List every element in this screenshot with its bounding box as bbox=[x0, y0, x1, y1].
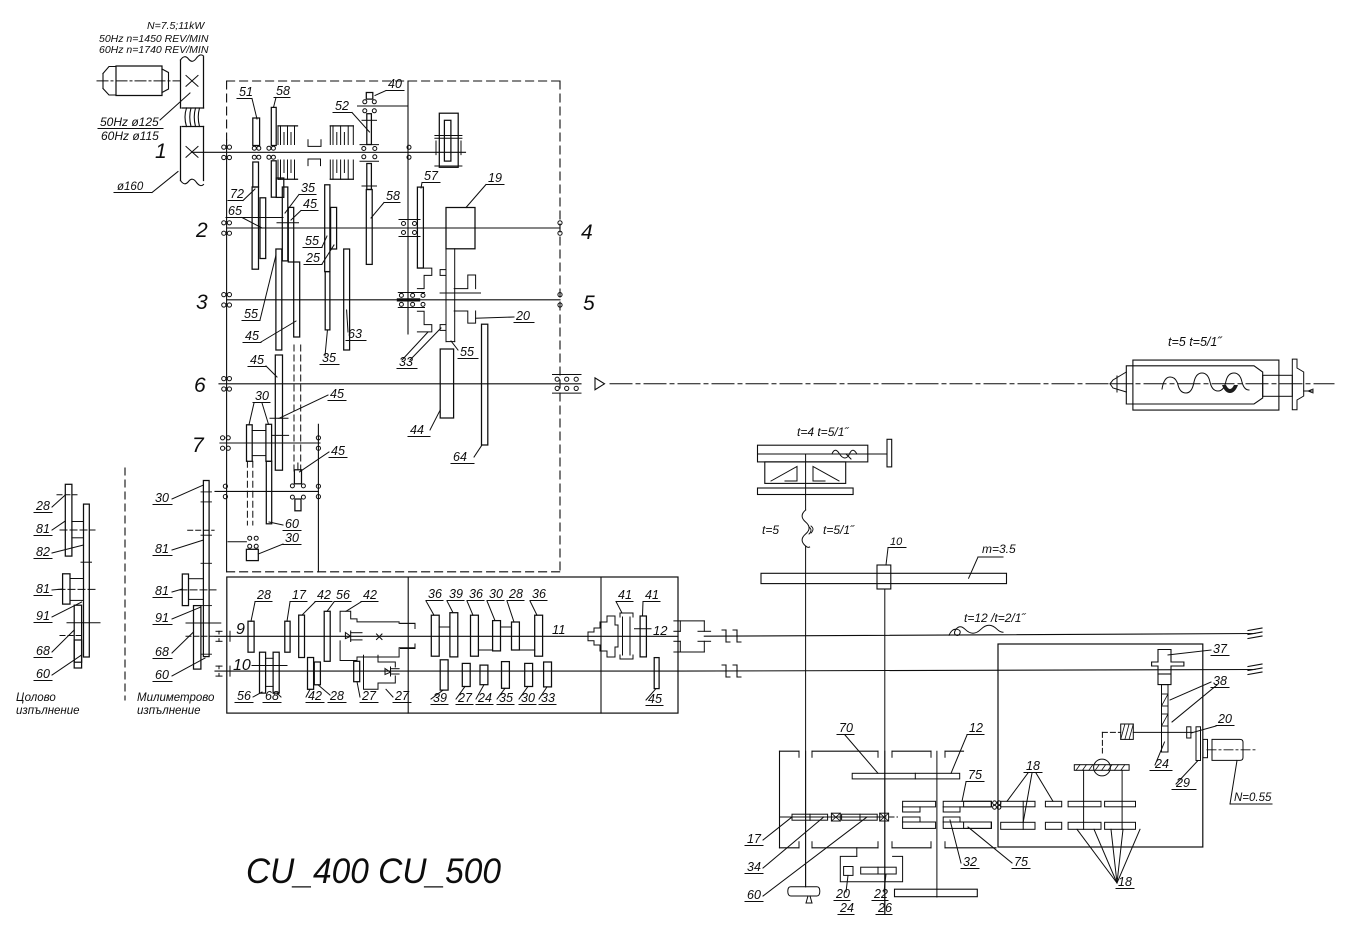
gear 30 cluster left bar bbox=[247, 425, 253, 462]
svg-text:75: 75 bbox=[968, 768, 982, 782]
rapid gear bars set1 bottom bbox=[1001, 822, 1035, 829]
svg-text:N=7.5;11kW: N=7.5;11kW bbox=[147, 20, 205, 32]
clutch jaw bottom bbox=[903, 817, 920, 822]
svg-text:12: 12 bbox=[653, 623, 668, 638]
pinion shaft line bbox=[884, 589, 886, 914]
svg-text:Милиметрово: Милиметрово bbox=[137, 692, 215, 704]
inch variant gear 68/60 bar bbox=[74, 640, 81, 668]
hub link 36-39 bbox=[439, 626, 450, 628]
worm shaft bar 38 bbox=[1162, 685, 1169, 752]
svg-text:4: 4 bbox=[581, 221, 593, 244]
vertical line cross-slide screw through apron bbox=[805, 751, 807, 887]
svg-text:5: 5 bbox=[583, 292, 595, 315]
belt pulley column (driver) bbox=[181, 55, 204, 61]
gear 57 dog clutch step lower bbox=[417, 311, 431, 332]
shaft X line bbox=[215, 670, 678, 672]
svg-text:41: 41 bbox=[645, 588, 659, 602]
worm hatched segment b bbox=[1162, 714, 1169, 726]
svg-text:1: 1 bbox=[155, 140, 167, 163]
gear 28 on shaft X bbox=[314, 662, 320, 685]
svg-text:91: 91 bbox=[155, 611, 169, 625]
svg-text:2: 2 bbox=[195, 219, 208, 242]
worm hatched bar bbox=[1074, 765, 1129, 771]
svg-text:20: 20 bbox=[515, 309, 530, 323]
gear 72 bbox=[252, 187, 258, 269]
ratchet symbol a bbox=[831, 813, 840, 821]
gear bar 17 bbox=[792, 814, 828, 820]
gear 44 hub bbox=[446, 341, 455, 343]
gearbox dashed housing bottom edge bbox=[227, 571, 560, 573]
shaft VI (spindle) line bbox=[219, 383, 581, 385]
detent arrow on shaft IX bbox=[345, 633, 350, 639]
cross mark on motor axis bbox=[186, 76, 198, 87]
gear 24 on shaft X middle bbox=[480, 665, 488, 685]
rapid motor flange bbox=[1196, 727, 1201, 761]
svg-text:33: 33 bbox=[399, 355, 413, 369]
vertical screw line lower bbox=[805, 546, 807, 887]
gear 45 on shaft III bbox=[294, 262, 300, 337]
metric variant gear 81 hub bbox=[182, 574, 188, 606]
sliding block 42 on shaft IX bbox=[340, 611, 415, 632]
bearing gear 52 on shaft I bbox=[360, 144, 379, 146]
svg-text:10: 10 bbox=[890, 536, 903, 548]
metric variant centerline bbox=[180, 589, 216, 591]
gear 39 on shaft X middle bbox=[440, 660, 448, 690]
svg-text:30: 30 bbox=[285, 531, 299, 545]
svg-text:t=4 t=5/1˝: t=4 t=5/1˝ bbox=[797, 425, 849, 439]
dashed alternate position rails of gear 45 bbox=[293, 345, 295, 472]
svg-text:27: 27 bbox=[457, 691, 473, 705]
svg-text:m=3.5: m=3.5 bbox=[982, 542, 1016, 556]
universal joints on feed rod bbox=[725, 665, 727, 677]
svg-text:60Hz n=1740 REV/MIN: 60Hz n=1740 REV/MIN bbox=[99, 44, 209, 56]
svg-text:60: 60 bbox=[285, 517, 299, 531]
svg-text:37: 37 bbox=[1213, 642, 1228, 656]
gear 57 on shaft II bbox=[417, 187, 423, 268]
svg-text:изпълнение: изпълнение bbox=[16, 705, 80, 717]
svg-text:Цолово: Цолово bbox=[16, 692, 56, 704]
svg-text:t=5/1˝: t=5/1˝ bbox=[823, 523, 855, 537]
apron box top edge bbox=[780, 750, 800, 752]
shaft VII line bbox=[220, 442, 320, 444]
rapid motor axis bbox=[1207, 749, 1256, 751]
hub link 28-36c bbox=[519, 649, 534, 651]
gear 51 bbox=[253, 118, 260, 146]
svg-text:42: 42 bbox=[308, 689, 322, 703]
rapid gear bars set3 bottom bbox=[1068, 822, 1101, 829]
bearing shaft VI left wall bbox=[222, 377, 226, 381]
gear 45 sliding on shaft VI bbox=[275, 355, 282, 470]
bearing small 45 bbox=[297, 463, 299, 470]
horizontal shaft to motor bbox=[1133, 731, 1192, 733]
cross mark on shaft I bbox=[186, 147, 198, 158]
svg-text:t=5: t=5 bbox=[762, 523, 779, 537]
tailstock quill bbox=[1126, 366, 1262, 404]
svg-text:20: 20 bbox=[835, 887, 850, 901]
svg-text:63: 63 bbox=[348, 327, 362, 341]
clutch hatched square 24 bbox=[1121, 724, 1134, 739]
gear 68 on shaft X bbox=[273, 652, 279, 693]
svg-text:10: 10 bbox=[233, 657, 251, 674]
svg-text:72: 72 bbox=[230, 187, 244, 201]
rapid gear bars set4 top bbox=[1105, 801, 1136, 807]
metric variant shaft tick bbox=[186, 622, 221, 624]
bar 22 bbox=[861, 867, 897, 874]
vertical gear shafts in rapid box bbox=[1083, 770, 1085, 829]
spindle output arrow bbox=[595, 378, 605, 390]
gear 41 narrow bbox=[640, 616, 646, 657]
gear 55 on shaft III bbox=[276, 249, 282, 350]
gear bar 34/60 middle bbox=[842, 814, 878, 820]
feed rod line bbox=[678, 670, 1255, 672]
svg-text:51: 51 bbox=[239, 85, 253, 99]
rapid motor body bbox=[1212, 739, 1243, 760]
interlock box 20/24 22/26 bbox=[840, 856, 902, 881]
coupling on shaft IX entry bbox=[218, 631, 220, 634]
gear block 19 on shaft IV bbox=[446, 208, 475, 249]
svg-text:t=5 t=5/1˝: t=5 t=5/1˝ bbox=[1168, 335, 1223, 349]
overload clutch stepped profile bbox=[588, 616, 615, 657]
gear 55 on shaft II bbox=[325, 185, 330, 272]
shaft VIII line bbox=[215, 490, 318, 492]
leader 38 second bbox=[1172, 685, 1217, 722]
feed screw wavy break t=5 bbox=[802, 510, 810, 547]
svg-text:45: 45 bbox=[330, 387, 344, 401]
svg-text:39: 39 bbox=[433, 691, 447, 705]
gear 27 on shaft X middle bbox=[462, 663, 470, 686]
clutch shifter sleeve middle bbox=[308, 140, 321, 147]
vertical feed screw line bbox=[805, 455, 807, 510]
svg-text:6: 6 bbox=[194, 374, 206, 397]
bevel gear unit on shaft I end bbox=[439, 113, 458, 167]
cross slide handle bbox=[887, 439, 892, 467]
gear 52 column bbox=[367, 114, 372, 145]
tailstock axis inside bbox=[1110, 383, 1334, 385]
shaft X label dash bbox=[252, 665, 287, 667]
svg-text:36: 36 bbox=[532, 587, 546, 601]
clutch fork T upper on shaft V bbox=[454, 275, 475, 289]
gear 36 on shaft XI bbox=[431, 615, 439, 656]
clutch jaw top bbox=[903, 807, 920, 812]
svg-text:27: 27 bbox=[394, 689, 410, 703]
rapid gear bars set4 bottom bbox=[1105, 822, 1136, 829]
leader 30 second bbox=[262, 403, 269, 424]
gear 28 on shaft IX bbox=[248, 621, 254, 652]
pulley lower column (driven pulley) bbox=[180, 127, 182, 181]
svg-text:35: 35 bbox=[322, 351, 336, 365]
svg-text:82: 82 bbox=[36, 545, 50, 559]
mesh tick gear30-gear45 bbox=[272, 434, 289, 436]
svg-text:68: 68 bbox=[155, 645, 169, 659]
rapid gear bars set2 bottom bbox=[1045, 822, 1061, 829]
svg-text:39: 39 bbox=[449, 587, 463, 601]
gearbox dashed housing top edge bbox=[227, 80, 560, 82]
half nut cross 37 bbox=[1152, 650, 1184, 685]
clutch 75 top bar right bbox=[943, 801, 991, 807]
bearing block shaft II/IV bbox=[399, 219, 420, 221]
svg-text:36: 36 bbox=[469, 587, 483, 601]
tailstock screw filled tooth bbox=[1222, 385, 1238, 393]
clutch 75 bottom bar left bbox=[903, 822, 936, 828]
gear 58 lower column (to shaft II) bbox=[367, 164, 372, 190]
svg-text:75: 75 bbox=[1014, 855, 1028, 869]
gear 70 face bar bbox=[852, 773, 960, 779]
metric variant dashed tick upper bbox=[188, 529, 214, 531]
rapid gear bars set3 top bbox=[1068, 801, 1101, 807]
svg-text:45: 45 bbox=[648, 692, 662, 706]
inch variant shaft tick bbox=[67, 622, 100, 624]
svg-text:65: 65 bbox=[228, 204, 242, 218]
dog tooth square upper on column 19 bbox=[440, 270, 446, 276]
gearbox dashed housing left upper edge bbox=[226, 81, 228, 140]
svg-text:45: 45 bbox=[250, 353, 264, 367]
gear 36b on shaft XI bbox=[471, 615, 479, 656]
svg-text:45: 45 bbox=[303, 197, 317, 211]
motor axis centerline bbox=[97, 80, 180, 82]
vertical support line right column bbox=[317, 424, 319, 572]
gear 60 column bbox=[266, 461, 271, 524]
svg-text:17: 17 bbox=[292, 588, 307, 602]
svg-text:3: 3 bbox=[196, 291, 208, 314]
bearing shaft VIII left bbox=[223, 484, 227, 488]
clutch 75 bottom bar right bbox=[943, 822, 991, 828]
x mark on block 42 bbox=[377, 634, 383, 640]
svg-text:70: 70 bbox=[839, 721, 853, 735]
cross slide base plate bbox=[758, 488, 854, 495]
inch variant gear 82 bar bbox=[84, 504, 90, 657]
pinion housing 10 bbox=[877, 565, 891, 589]
gear 42 on shaft X bbox=[308, 658, 314, 690]
svg-text:64: 64 bbox=[453, 450, 467, 464]
spindle dash-dot axis to tailstock bbox=[610, 383, 1110, 385]
coupling on shaft X entry bbox=[218, 666, 220, 669]
tailstock handwheel stem bbox=[1263, 375, 1293, 396]
friction clutch left half (combs) bbox=[278, 125, 298, 127]
clutch 75 top bar left bbox=[903, 801, 936, 807]
svg-text:24: 24 bbox=[839, 901, 854, 915]
gearbox left wall bbox=[226, 140, 228, 572]
gear 44 bbox=[440, 349, 453, 418]
universal joints on leadscrew bbox=[725, 630, 727, 642]
svg-text:41: 41 bbox=[618, 588, 632, 602]
svg-text:58: 58 bbox=[386, 189, 400, 203]
svg-text:60Hz ø115: 60Hz ø115 bbox=[101, 129, 159, 143]
svg-text:30: 30 bbox=[255, 389, 269, 403]
gear 27 on shaft X bbox=[354, 661, 360, 681]
inch variant dashed tick top bbox=[57, 494, 77, 496]
svg-text:27: 27 bbox=[361, 689, 377, 703]
apron box left edge bbox=[779, 751, 781, 848]
svg-text:55: 55 bbox=[244, 307, 258, 321]
svg-text:32: 32 bbox=[963, 855, 977, 869]
small gear 45 on shaft VIII lower bbox=[295, 499, 301, 511]
shaft III line bbox=[227, 299, 560, 301]
gear 57 dog clutch step upper bbox=[417, 268, 431, 289]
svg-text:t=12 /t=2/1˝: t=12 /t=2/1˝ bbox=[964, 611, 1026, 625]
gear 30 cluster right bar bbox=[266, 424, 272, 461]
dog tooth square lower on column 19 bbox=[440, 325, 446, 331]
bearing shaft VIII right bbox=[316, 484, 320, 488]
svg-text:60: 60 bbox=[747, 888, 761, 902]
cross slide screw wavy bbox=[832, 450, 857, 458]
gear 36c on shaft XI bbox=[535, 615, 543, 656]
metric variant main gear bar 30/81 bbox=[203, 481, 209, 657]
svg-text:35: 35 bbox=[301, 181, 315, 195]
svg-text:30: 30 bbox=[155, 491, 169, 505]
tailstock center cone bbox=[1110, 372, 1126, 392]
dashed slide rails below gear 30 bbox=[246, 461, 248, 525]
hub links 56-68 bbox=[266, 657, 274, 659]
shaft of gear 40 (stub) bbox=[358, 105, 408, 107]
svg-text:57: 57 bbox=[424, 169, 439, 183]
svg-text:34: 34 bbox=[747, 860, 761, 874]
gear 30 cluster hub links bbox=[252, 430, 266, 432]
svg-text:58: 58 bbox=[276, 84, 290, 98]
gear 56 on shaft X bbox=[260, 652, 266, 693]
bearing shaft IV right wall bbox=[558, 221, 562, 225]
gear 64 bbox=[482, 324, 488, 445]
gear 58 (shaft I sleeve) bbox=[271, 107, 276, 145]
feed box internal wall 2 bbox=[600, 577, 602, 713]
leader 33 second bbox=[410, 328, 441, 360]
shaft I line bbox=[192, 151, 466, 153]
electromagnet box 30 bbox=[246, 549, 258, 560]
svg-text:50Hz ø125: 50Hz ø125 bbox=[100, 115, 159, 129]
link apron bottom to interlock box bbox=[856, 848, 858, 857]
gearbox dashed housing right edge bbox=[559, 81, 561, 572]
shaft IX line bbox=[215, 635, 678, 637]
electric motor M1 body bbox=[116, 66, 162, 96]
svg-text:24: 24 bbox=[1154, 757, 1169, 771]
gear 28 on shaft XI bbox=[512, 622, 520, 650]
cross slide top table bbox=[758, 445, 868, 462]
half nut shaft 17/34/60 line bbox=[780, 816, 882, 818]
svg-text:45: 45 bbox=[331, 444, 345, 458]
clutch spring plate bbox=[620, 613, 633, 617]
inch variant dashed tick bbox=[60, 635, 84, 637]
gear 39 on shaft XI bbox=[450, 613, 458, 657]
svg-text:11: 11 bbox=[552, 622, 566, 637]
metric variant gear 91/68 bar bbox=[194, 606, 201, 670]
worm hatched segment a bbox=[1162, 694, 1169, 706]
inch variant gear 28/81 bar bbox=[65, 484, 72, 556]
bearing shaft I left wall bbox=[222, 145, 226, 149]
svg-text:44: 44 bbox=[410, 423, 424, 437]
svg-text:изпълнение: изпълнение bbox=[137, 705, 201, 717]
svg-text:28: 28 bbox=[329, 689, 344, 703]
coupling circles above box 30 bbox=[248, 536, 252, 540]
gear 25 on shaft II bbox=[331, 207, 337, 249]
bottom wide gear bar bbox=[895, 889, 978, 897]
svg-text:68: 68 bbox=[36, 644, 50, 658]
svg-text:7: 7 bbox=[192, 434, 205, 457]
friction clutch right half (combs) bbox=[330, 125, 353, 127]
feed box internal wall 1 bbox=[407, 577, 409, 713]
inch variant centerline upper bbox=[60, 529, 95, 531]
svg-text:28: 28 bbox=[508, 587, 523, 601]
svg-text:81: 81 bbox=[155, 542, 169, 556]
gear 30 on shaft X middle bbox=[525, 663, 533, 686]
gear 42 on shaft IX bbox=[299, 615, 305, 657]
svg-text:36: 36 bbox=[428, 587, 442, 601]
gear 65 bbox=[260, 198, 266, 259]
line to coupling 30 bbox=[228, 541, 246, 543]
metric variant dashed tick lower bbox=[186, 635, 214, 637]
gear 35 on shaft X middle bbox=[502, 662, 510, 689]
cross slide handle stem bbox=[868, 453, 887, 455]
tailstock screw wavy bbox=[1162, 373, 1249, 393]
gear 45 on shaft II bbox=[288, 207, 293, 262]
feed gearbox housing bbox=[227, 577, 678, 713]
sleeve bar below gear 51 bbox=[253, 162, 259, 187]
rack bar bbox=[761, 573, 1007, 583]
leadscrew line bbox=[704, 634, 1255, 637]
svg-text:45: 45 bbox=[245, 329, 259, 343]
svg-text:30: 30 bbox=[489, 587, 503, 601]
apron box bottom edge bbox=[780, 847, 800, 849]
gear 17 on shaft IX bbox=[285, 621, 290, 652]
leadscrew wavy break t=12 bbox=[949, 625, 1003, 635]
svg-text:28: 28 bbox=[256, 588, 271, 602]
swivel wedge marks bbox=[771, 467, 797, 482]
small gear 45 on shaft VIII upper bbox=[294, 470, 301, 484]
hub link 30-28 bbox=[501, 626, 512, 628]
rapid gear bars set1 top bbox=[1001, 801, 1035, 807]
inch variant centerline lower bbox=[58, 588, 96, 590]
gear bars left of rapid box bbox=[964, 801, 992, 807]
svg-text:56: 56 bbox=[237, 689, 251, 703]
svg-text:22: 22 bbox=[873, 887, 888, 901]
worm wheel circle bbox=[1094, 759, 1111, 776]
svg-text:42: 42 bbox=[363, 588, 377, 602]
tailstock outer body bbox=[1133, 360, 1279, 410]
divider dashed line between variants bbox=[124, 468, 126, 700]
svg-text:42: 42 bbox=[317, 588, 331, 602]
svg-text:20: 20 bbox=[1217, 712, 1232, 726]
svg-text:91: 91 bbox=[36, 609, 50, 623]
svg-text:26: 26 bbox=[877, 901, 892, 915]
divider bearing caps shaft IX bbox=[401, 622, 416, 624]
dashed link from clutch bbox=[1102, 731, 1120, 733]
shaft II line bbox=[227, 227, 560, 229]
gear 56 on shaft IX bbox=[324, 611, 330, 661]
mesh tick shaft V bbox=[440, 292, 480, 294]
vertical pinion line through apron bbox=[884, 751, 886, 914]
bearing shaft II left wall bbox=[222, 221, 226, 225]
svg-text:28: 28 bbox=[35, 499, 50, 513]
svg-text:55: 55 bbox=[460, 345, 474, 359]
belt section (v-belt) bbox=[185, 108, 187, 127]
svg-text:60: 60 bbox=[36, 667, 50, 681]
svg-text:25: 25 bbox=[305, 251, 320, 265]
cross slide swivel block bbox=[765, 462, 846, 484]
gear 63 on shaft III bbox=[344, 249, 350, 350]
svg-text:40: 40 bbox=[388, 77, 402, 91]
svg-text:19: 19 bbox=[488, 171, 502, 185]
ratchet symbol b bbox=[880, 813, 889, 821]
detent arrow on shaft X bbox=[385, 669, 391, 675]
leadscrew end marks bbox=[1248, 628, 1262, 631]
svg-text:18: 18 bbox=[1026, 759, 1040, 773]
mesh tick shaft II gears bbox=[277, 222, 299, 224]
inch variant gear 81 lower hub bbox=[63, 574, 70, 604]
gear 55 lower extension bbox=[325, 272, 330, 330]
bearing block shaft III/V with clutch bbox=[398, 292, 424, 294]
column below block 19 bbox=[445, 249, 447, 342]
svg-text:12: 12 bbox=[969, 721, 983, 735]
gear 20 small bbox=[1187, 727, 1191, 738]
vertical line to bottom gear bbox=[936, 751, 938, 897]
